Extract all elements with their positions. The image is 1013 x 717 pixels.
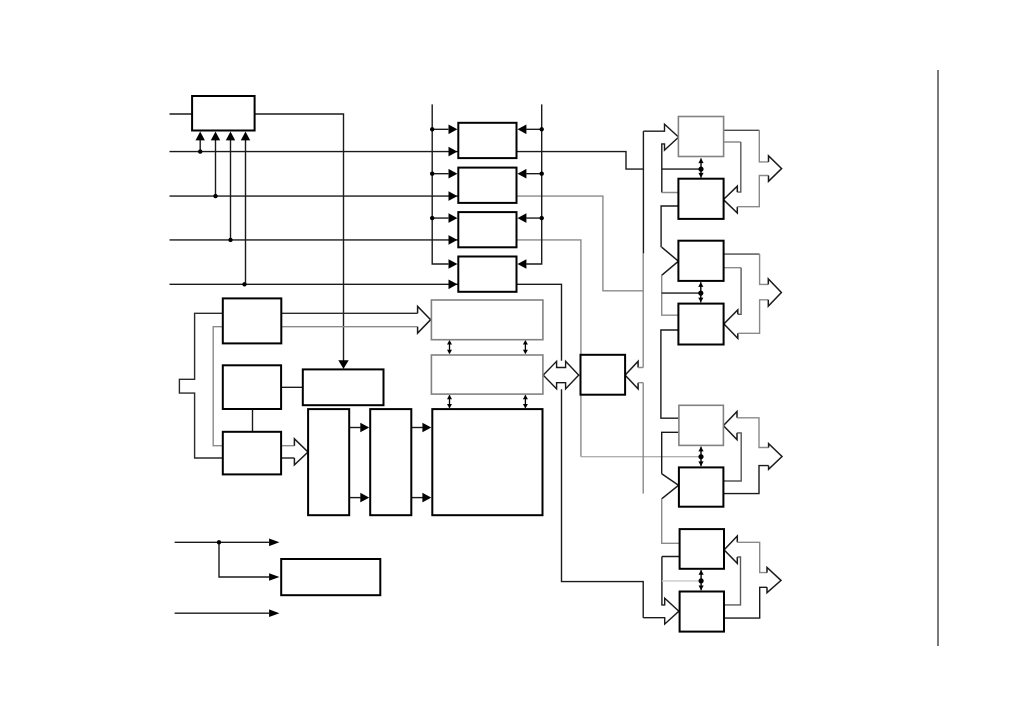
arrowhead G1 to G2 lower — [360, 493, 369, 503]
arrowhead branch into H — [269, 573, 279, 581]
wire: D to E connector — [252, 409, 254, 432]
box B3b — [679, 467, 724, 506]
arrowhead G2 to C3 upper — [422, 423, 431, 433]
box M1 — [458, 123, 516, 158]
arrowhead into M4 upper — [449, 259, 458, 269]
wire: B2a output to right chevron — [724, 267, 742, 269]
arrowhead up into A from line4 — [241, 132, 250, 141]
block arrow head E to G1 — [294, 439, 308, 465]
box G1 — [308, 409, 349, 515]
wire: group2 dot line — [662, 292, 701, 294]
chevron arrow into B3a right — [723, 412, 737, 440]
wire: bus line 3 — [170, 239, 517, 241]
wire: B2a output to out-arrow top — [724, 253, 760, 255]
arrowhead line5 — [269, 539, 279, 547]
wire: right vertical bus of middle column — [527, 104, 542, 264]
block arrow into group4 lower box — [643, 557, 679, 625]
box B3a gray — [679, 405, 724, 445]
box C1 gray — [431, 300, 543, 340]
junction dot line3 — [228, 238, 232, 242]
wire: outer left loop from B input down to E — [179, 313, 417, 458]
wire: stub up from line3 to A — [230, 140, 232, 240]
junction dots right bus — [540, 127, 544, 131]
small updown arrow C1b-C3 right — [524, 395, 526, 408]
wire: group4 chevron top feed to out-arrow — [737, 542, 767, 572]
wire: group3 vertical below chevron into B4a — [662, 499, 680, 544]
wire: out-arrow1 bottom feed — [737, 176, 768, 207]
wire: line 4 continuation down and right to group 4 — [517, 284, 644, 617]
arrowhead up into A from line3 — [226, 132, 235, 141]
out arrow head group3 — [769, 444, 782, 470]
wire: B4a second input — [662, 556, 680, 558]
right margin vertical line — [937, 70, 939, 646]
box F — [581, 355, 626, 395]
arrowhead G1 to G2 upper — [360, 423, 369, 433]
box B1b — [678, 179, 723, 219]
wire: stub up from line1 to A — [199, 140, 201, 152]
wire: G1 to G2 lower — [349, 497, 360, 499]
chevron arrow into B2b right — [724, 310, 738, 339]
block arrow into group1 upper box — [643, 124, 678, 192]
junction dot line1 — [198, 149, 202, 153]
arrowhead into M2 lower — [449, 191, 458, 201]
small updown arrow C1b-C3 left — [449, 395, 451, 408]
wire: B3a second input down to group3 chevron — [662, 432, 679, 473]
bidir arrow group4 with dot — [700, 570, 702, 590]
double arrow between C1b and F — [543, 361, 579, 389]
arrowhead into M2 upper — [449, 169, 458, 179]
arrowhead line6 — [269, 609, 279, 617]
box C3 — [432, 409, 542, 515]
small updown arrow C1-C1b left — [449, 341, 451, 354]
wire: G2 to C3 upper — [411, 427, 422, 429]
box B2a — [678, 241, 723, 281]
arrowhead up into A from line1 — [196, 132, 205, 141]
out arrow head group1 — [769, 156, 782, 182]
wire: F chevron stubs to long vertical — [638, 368, 643, 383]
bidir arrow group3 with dot — [700, 447, 702, 466]
junction dots left bus — [430, 127, 434, 131]
wire: input line into block A — [170, 114, 344, 361]
box B1a gray — [678, 117, 723, 157]
wire: stub up from line4 to A — [245, 140, 247, 284]
box G2 — [370, 409, 411, 515]
junction dot line2 — [213, 194, 217, 198]
wire: gray input to B1b — [662, 192, 679, 194]
chevron arrow into F right — [625, 361, 638, 389]
chevron arrow into B1b right — [723, 186, 737, 213]
arrowhead into M1 right — [518, 125, 527, 135]
box M2 — [458, 168, 516, 203]
wire: group3 chevron bottom feed from B3b — [723, 433, 741, 481]
box A — [192, 96, 255, 131]
box D — [223, 365, 281, 409]
wire: B1a output to right chevron — [724, 141, 741, 143]
wire: bus line 4 — [170, 283, 517, 285]
wire: branch of line 5 into H — [219, 542, 269, 577]
arrowhead into M4 lower — [449, 280, 458, 290]
wire: D to C2 — [281, 386, 303, 388]
wire: long vertical at x=643 black upper segment — [642, 131, 644, 253]
box C1b gray — [431, 355, 543, 394]
box M4 — [458, 257, 516, 292]
wire: bottom line 5 — [175, 541, 270, 543]
wire: line 2 continuation to right column — [517, 196, 644, 291]
wire: out-arrow2 bottom feed — [738, 300, 769, 334]
chevron arrow into group2 upper box — [662, 247, 679, 275]
wire: group3 chevron top feed to out-arrow — [737, 418, 769, 448]
wire: B1a output to out-arrow top — [724, 129, 760, 131]
box B2b — [678, 304, 723, 345]
wire: bus line 2 — [170, 195, 517, 197]
out arrow head group4 — [767, 568, 781, 593]
arrowhead into M3 upper — [449, 213, 458, 223]
junction dot line5 — [217, 540, 221, 544]
wire: bottom line 6 — [175, 612, 270, 614]
arrowhead into M3 right — [518, 213, 527, 223]
wire: group4 dot line light gray — [662, 580, 701, 582]
wire: group4 chevron bottom feed from B4b — [724, 557, 741, 605]
wire: stub up from line2 to A — [215, 140, 217, 196]
arrowhead G2 to C3 lower — [422, 493, 431, 503]
wire: B4b output to out-arrow bottom — [724, 587, 767, 618]
arrowhead into M2 right — [518, 169, 527, 179]
chevron arrow into group3 lower box — [662, 474, 679, 499]
chevron arrow into B4a right — [724, 536, 737, 563]
wire: left vertical bus of middle column — [432, 104, 448, 264]
wire: B2b second input continuing down to B3a — [661, 330, 679, 418]
wire: G1 to G2 upper — [349, 427, 360, 429]
wire: line 3 continuation to node dot of group 3 — [517, 240, 581, 457]
wire: group2 vertical below chevron into B2b — [662, 275, 679, 315]
arrowhead into M1 upper — [449, 125, 458, 135]
block arrow head B to C1 — [418, 306, 431, 333]
box H — [281, 559, 380, 595]
wire: long vertical at x=643 gray middle segment — [642, 253, 644, 493]
box B — [223, 298, 281, 343]
box M3 — [458, 212, 516, 247]
box B4a — [680, 529, 724, 569]
out arrow head group2 — [768, 279, 781, 306]
wire: B1b second input going down to group2 arrow — [661, 206, 678, 247]
wire: group1 dot line — [662, 168, 701, 170]
box C2 — [303, 369, 384, 405]
arrowhead down into C2 — [338, 360, 348, 369]
bidir arrow group2 with dot — [700, 282, 702, 302]
arrowhead into M3 lower — [449, 235, 458, 245]
arrowhead into M4 right — [518, 259, 527, 269]
arrowhead into M1 lower — [449, 147, 458, 157]
wire: inner gray loop from B to E — [213, 327, 417, 446]
box E — [223, 432, 281, 475]
wire: bus line 1 — [170, 152, 644, 170]
box B4b — [680, 592, 724, 632]
wire: G2 to C3 lower — [411, 497, 422, 499]
bidir arrow group1 with dot — [700, 158, 702, 177]
junction dot line4 — [242, 282, 246, 286]
wire: B3b output to out-arrow bottom — [723, 466, 768, 494]
arrowhead up into A from line2 — [211, 132, 220, 141]
small updown arrow C1-C1b right — [524, 341, 526, 354]
